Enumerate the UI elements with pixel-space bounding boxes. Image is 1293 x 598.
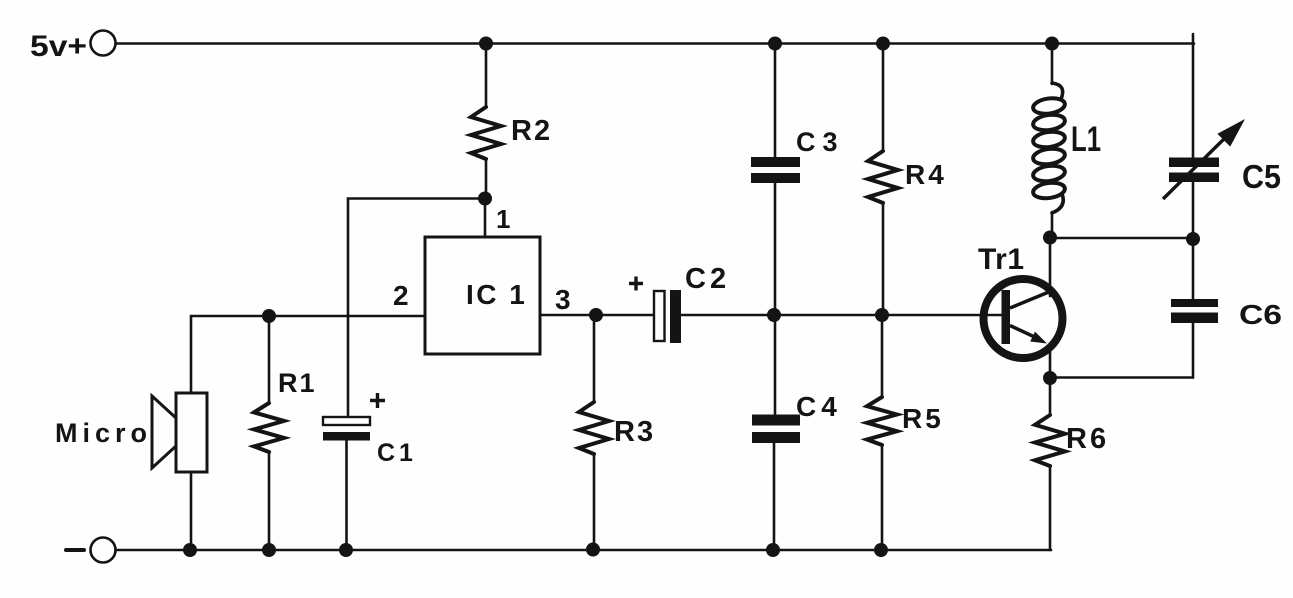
- svg-text:Tr1: Tr1: [978, 243, 1025, 276]
- svg-text:R5: R5: [902, 403, 944, 434]
- svg-text:C2: C2: [685, 263, 730, 295]
- svg-text:R2: R2: [511, 115, 552, 147]
- svg-text:C6: C6: [1239, 299, 1282, 330]
- svg-text:Micro: Micro: [55, 418, 152, 448]
- svg-text:5v+: 5v+: [30, 30, 87, 63]
- svg-text:R4: R4: [905, 159, 947, 190]
- svg-text:C5: C5: [1242, 158, 1281, 195]
- svg-text:3: 3: [555, 284, 573, 315]
- svg-text:R6: R6: [1066, 423, 1109, 455]
- svg-text:R1: R1: [278, 368, 317, 398]
- svg-text:1: 1: [496, 204, 512, 234]
- svg-text:IC 1: IC 1: [466, 279, 527, 310]
- svg-text:C4: C4: [796, 391, 842, 422]
- svg-text:C3: C3: [796, 127, 845, 157]
- svg-text:2: 2: [393, 280, 411, 311]
- svg-text:L1: L1: [1071, 120, 1101, 159]
- svg-text:C1: C1: [377, 439, 417, 467]
- svg-text:R3: R3: [614, 416, 655, 448]
